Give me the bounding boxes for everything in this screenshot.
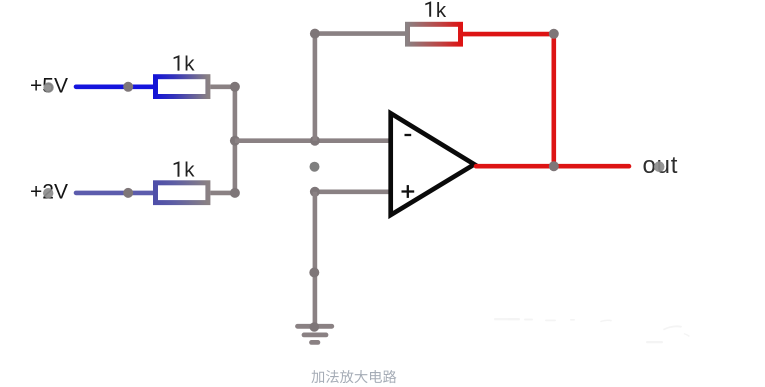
junction dot feedback tap	[310, 136, 320, 146]
ground symbol	[298, 326, 332, 342]
op-amp U1	[391, 113, 475, 215]
resistor R1 1k	[156, 77, 208, 97]
wire R2 output to node A	[210, 141, 235, 193]
wire feedback tap up to R3	[315, 34, 405, 141]
wire +5V source to R1 (blue)	[76, 85, 153, 90]
wire down to ground	[313, 192, 318, 326]
node A junction dot (summing node)	[230, 136, 240, 146]
junction dot R2 output	[230, 188, 240, 198]
wire +2V source to R2 (indigo)	[76, 191, 153, 196]
svg-text:k: k	[436, 0, 447, 22]
terminal dot over out pin	[654, 161, 665, 172]
junction dot on +5V wire	[123, 82, 133, 92]
wire ground net to op-amp non-inverting input	[315, 190, 391, 195]
wire R3 output to output net (red)	[463, 34, 554, 166]
label R1 value 1k	[174, 53, 196, 76]
ground junction blob	[310, 322, 320, 332]
svg-text:k: k	[184, 53, 195, 76]
op-amp minus sign	[405, 134, 412, 136]
junction dot R1 output	[230, 82, 240, 92]
corner dot feedback top-left	[310, 29, 320, 39]
junction dot on +2V wire	[123, 188, 133, 198]
wire node A to op-amp inverting input	[235, 138, 391, 143]
resistor R2 1k	[156, 183, 208, 203]
terminal dot over +5V pin	[43, 82, 53, 92]
junction dot on ground wire	[309, 268, 319, 278]
wire op-amp output to out terminal (red)	[476, 164, 629, 169]
corner dot feedback top-right	[549, 29, 559, 39]
label R3 value 1k	[425, 0, 447, 22]
wire R1 output to node A	[210, 87, 235, 141]
caption text 加法放大电路	[311, 370, 396, 383]
junction dot output/feedback	[549, 161, 559, 171]
resistor R3 1k (feedback)	[408, 24, 461, 44]
stray pin dot between op-amp inputs	[310, 162, 320, 172]
junction dot non-inverting tap	[310, 187, 320, 197]
svg-text:k: k	[184, 159, 195, 182]
terminal dot over +2V pin	[43, 188, 53, 198]
label R2 value 1k	[174, 159, 196, 182]
op-amp plus sign	[402, 185, 415, 198]
faint watermark smudges	[494, 318, 690, 343]
